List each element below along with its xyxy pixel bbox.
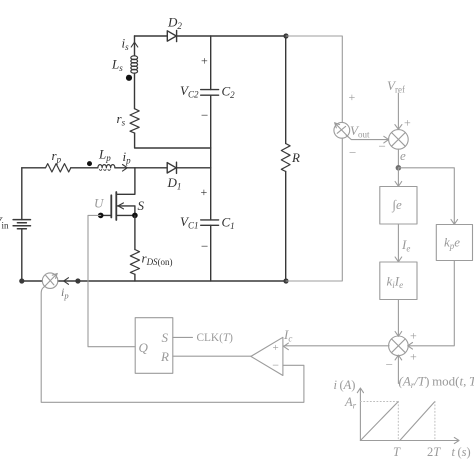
label r_DS(on) — [142, 251, 173, 268]
wire kp box to junction2 — [408, 261, 455, 350]
summing junction 2 — [389, 336, 409, 356]
source node dot — [132, 213, 138, 219]
svg-text:ip: ip — [123, 149, 132, 166]
current arrow i_p primary — [123, 165, 128, 172]
sawtooth ramp 1 — [360, 402, 398, 441]
label CLK(T) — [197, 332, 234, 344]
label e — [400, 148, 406, 163]
integrator box — [380, 187, 417, 225]
svg-text:−: − — [201, 239, 208, 254]
node e — [396, 165, 402, 171]
MOSFET arrow — [118, 203, 124, 209]
wire C branch top — [210, 36, 212, 90]
label R latch — [160, 349, 169, 364]
sawtooth plot x-axis — [360, 437, 459, 443]
svg-text:+: + — [273, 342, 279, 354]
svg-text:+: + — [410, 329, 417, 343]
svg-text:kpe: kpe — [444, 235, 460, 252]
svg-text:ip: ip — [61, 285, 69, 301]
svg-text:Vout: Vout — [350, 123, 370, 140]
wire C branch bottom — [210, 225, 212, 281]
gate lead — [101, 214, 112, 216]
gain box kp — [436, 225, 472, 261]
svg-text:U: U — [94, 196, 105, 211]
plus sign comparator — [273, 342, 279, 354]
svg-text:+: + — [349, 90, 356, 104]
svg-text:is: is — [122, 36, 130, 53]
minus sign junction2 — [386, 357, 393, 372]
svg-text:−: − — [386, 357, 393, 372]
wire source to r_DS — [134, 215, 136, 249]
svg-text:+: + — [404, 116, 411, 130]
label Ls — [111, 57, 123, 74]
label V_ref — [387, 78, 405, 95]
diode D2 — [167, 30, 176, 41]
label i (A) — [334, 378, 356, 392]
plus sign junction1 — [404, 116, 411, 130]
svg-text:rs: rs — [117, 111, 126, 128]
minus sign C1 — [201, 239, 208, 254]
label ki Ie — [387, 274, 404, 291]
label 2T — [427, 445, 441, 459]
diode D1 — [167, 162, 176, 173]
svg-text:T: T — [393, 445, 401, 459]
wire junction1 to e node — [397, 149, 399, 168]
wire sense line top — [286, 36, 342, 122]
svg-text:D1: D1 — [167, 175, 182, 192]
label A_r — [344, 395, 357, 411]
svg-text:Vin: Vin — [0, 214, 9, 231]
label I_c — [283, 327, 292, 344]
svg-text:Lp: Lp — [98, 147, 111, 164]
label C2 — [222, 84, 236, 101]
node rail dot — [75, 278, 80, 283]
svg-text:−: − — [379, 139, 386, 154]
node output bottom — [283, 278, 288, 283]
node Vin bottom — [19, 278, 24, 283]
node output top — [283, 33, 288, 38]
label T — [393, 445, 401, 459]
svg-text:C1: C1 — [222, 215, 235, 232]
wire Vin branch bottom — [21, 229, 23, 281]
transformer dot secondary — [126, 75, 132, 81]
inductor Ls — [131, 56, 138, 73]
svg-text:+: + — [410, 350, 417, 364]
wire sense line bottom — [286, 138, 342, 281]
latch box — [135, 318, 173, 374]
summing junction 1 — [389, 130, 409, 150]
svg-text:rp: rp — [52, 148, 62, 165]
wire bottom rail — [22, 280, 286, 282]
wire V_ref arrow — [395, 93, 402, 129]
gain box ki — [380, 262, 417, 300]
sawtooth plot y-axis — [357, 388, 363, 441]
dotted drop at T — [397, 402, 399, 441]
comparator — [251, 337, 283, 375]
transformer dot primary — [87, 161, 92, 166]
svg-text:rDS(on): rDS(on) — [142, 251, 173, 268]
plus sign C1 — [201, 185, 208, 199]
svg-text:C2: C2 — [222, 84, 236, 101]
resistor r_p — [46, 164, 71, 172]
label V_C2 — [180, 83, 199, 100]
resistor R branch top wire — [285, 36, 287, 144]
wire S to CLK — [173, 336, 193, 338]
label Lp — [98, 147, 111, 164]
wire e to integrator — [395, 168, 402, 187]
label S — [138, 198, 145, 213]
capacitor C1 — [201, 220, 219, 225]
svg-text:−: − — [201, 108, 208, 123]
inductor Lp — [98, 165, 115, 171]
wire mod signal into junction2 — [395, 355, 402, 383]
ammeter i_p — [42, 273, 58, 289]
minus sign comparator — [272, 358, 279, 372]
plus sign junction2 bottom — [410, 350, 417, 364]
svg-text:∫e: ∫e — [392, 197, 403, 213]
svg-text:2T: 2T — [427, 445, 441, 459]
svg-text:t (s): t (s) — [452, 445, 471, 459]
minus sign C2 — [201, 108, 208, 123]
svg-text:R: R — [160, 349, 169, 364]
plus sign sense — [349, 90, 356, 104]
resistor R branch bottom wire — [285, 172, 287, 282]
svg-text:(Ar/T) mod(t, T: (Ar/T) mod(t, T — [399, 374, 474, 391]
svg-text:Vref: Vref — [387, 78, 405, 95]
wire latch Q to gate — [88, 215, 135, 346]
minus sign sense — [349, 145, 356, 160]
svg-text:Ls: Ls — [111, 57, 123, 74]
label Vin — [0, 214, 9, 231]
sawtooth ramp 2 — [400, 402, 435, 441]
label r_s — [117, 111, 126, 128]
svg-text:VC2: VC2 — [180, 83, 199, 100]
wire secondary branch top — [134, 36, 136, 56]
dotted drop at 2T — [434, 402, 436, 441]
label C1 — [222, 215, 235, 232]
label t (s) — [452, 445, 471, 459]
resistor r_DS(on) — [130, 250, 139, 275]
label I_e — [401, 237, 410, 254]
wire R to comparator output — [173, 355, 251, 357]
wire ki box to junction2 — [395, 300, 402, 337]
plus sign junction2 top — [410, 329, 417, 343]
label D2 — [167, 15, 182, 32]
svg-text:R: R — [291, 150, 300, 165]
wire comparator minus feedback — [41, 286, 304, 402]
plus sign C2 — [201, 54, 208, 68]
gate node dot — [98, 213, 104, 219]
svg-text:Ie: Ie — [401, 237, 410, 254]
label U — [94, 196, 105, 211]
label i_p primary — [123, 149, 132, 166]
svg-text:e: e — [400, 148, 406, 163]
label Q — [139, 340, 149, 355]
label i_s — [122, 36, 130, 53]
wire C branch middle — [210, 95, 212, 220]
label r_p — [52, 148, 62, 165]
wire e to kp branch — [398, 168, 457, 225]
label D1 — [167, 175, 182, 192]
svg-text:CLK(T): CLK(T) — [197, 332, 234, 344]
svg-text:Q: Q — [139, 340, 149, 355]
wire drain connection — [117, 168, 135, 195]
wire Vin branch top — [21, 168, 23, 220]
svg-text:S: S — [162, 330, 169, 345]
svg-text:+: + — [201, 185, 208, 199]
dotted level A_r — [360, 401, 398, 403]
transistor U (MOSFET) — [111, 192, 116, 220]
label i_p return — [61, 285, 69, 301]
svg-text:VC1: VC1 — [180, 214, 198, 231]
capacitor C2 — [201, 90, 219, 96]
label kp e — [444, 235, 460, 252]
svg-text:−: − — [349, 145, 356, 160]
svg-text:−: − — [272, 358, 279, 372]
label V_out — [350, 123, 370, 140]
label S latch — [162, 330, 169, 345]
wire top rail from secondary branch to output node — [135, 35, 287, 37]
svg-text:S: S — [138, 198, 145, 213]
label integral e — [392, 197, 403, 213]
resistor R — [281, 144, 290, 172]
svg-text:D2: D2 — [167, 15, 182, 32]
battery Vin — [13, 220, 30, 229]
wire junction2 to comparator — [284, 343, 390, 350]
MOSFET source and body stubs — [116, 206, 135, 216]
svg-text:+: + — [201, 54, 208, 68]
svg-text:Ar: Ar — [344, 395, 357, 411]
current arrow i_p return — [64, 278, 69, 285]
current arrow i_s — [131, 42, 138, 47]
label V_C1 — [180, 214, 198, 231]
wire V_out to summing junction — [346, 135, 388, 143]
svg-text:i (A): i (A) — [334, 378, 356, 392]
wire primary rail — [22, 167, 211, 169]
resistor r_s — [130, 109, 139, 133]
wire r_s bottom to secondary return — [135, 133, 211, 148]
voltmeter V_out — [334, 122, 350, 138]
wire below Ls — [134, 73, 136, 109]
svg-text:kiIe: kiIe — [387, 274, 404, 291]
label mod signal — [399, 374, 474, 391]
wire r_DS to bottom rail — [134, 274, 136, 281]
svg-text:Ic: Ic — [283, 327, 292, 344]
minus sign junction1 — [379, 139, 386, 154]
wire integrator to ki box — [395, 224, 402, 262]
label R — [291, 150, 300, 165]
